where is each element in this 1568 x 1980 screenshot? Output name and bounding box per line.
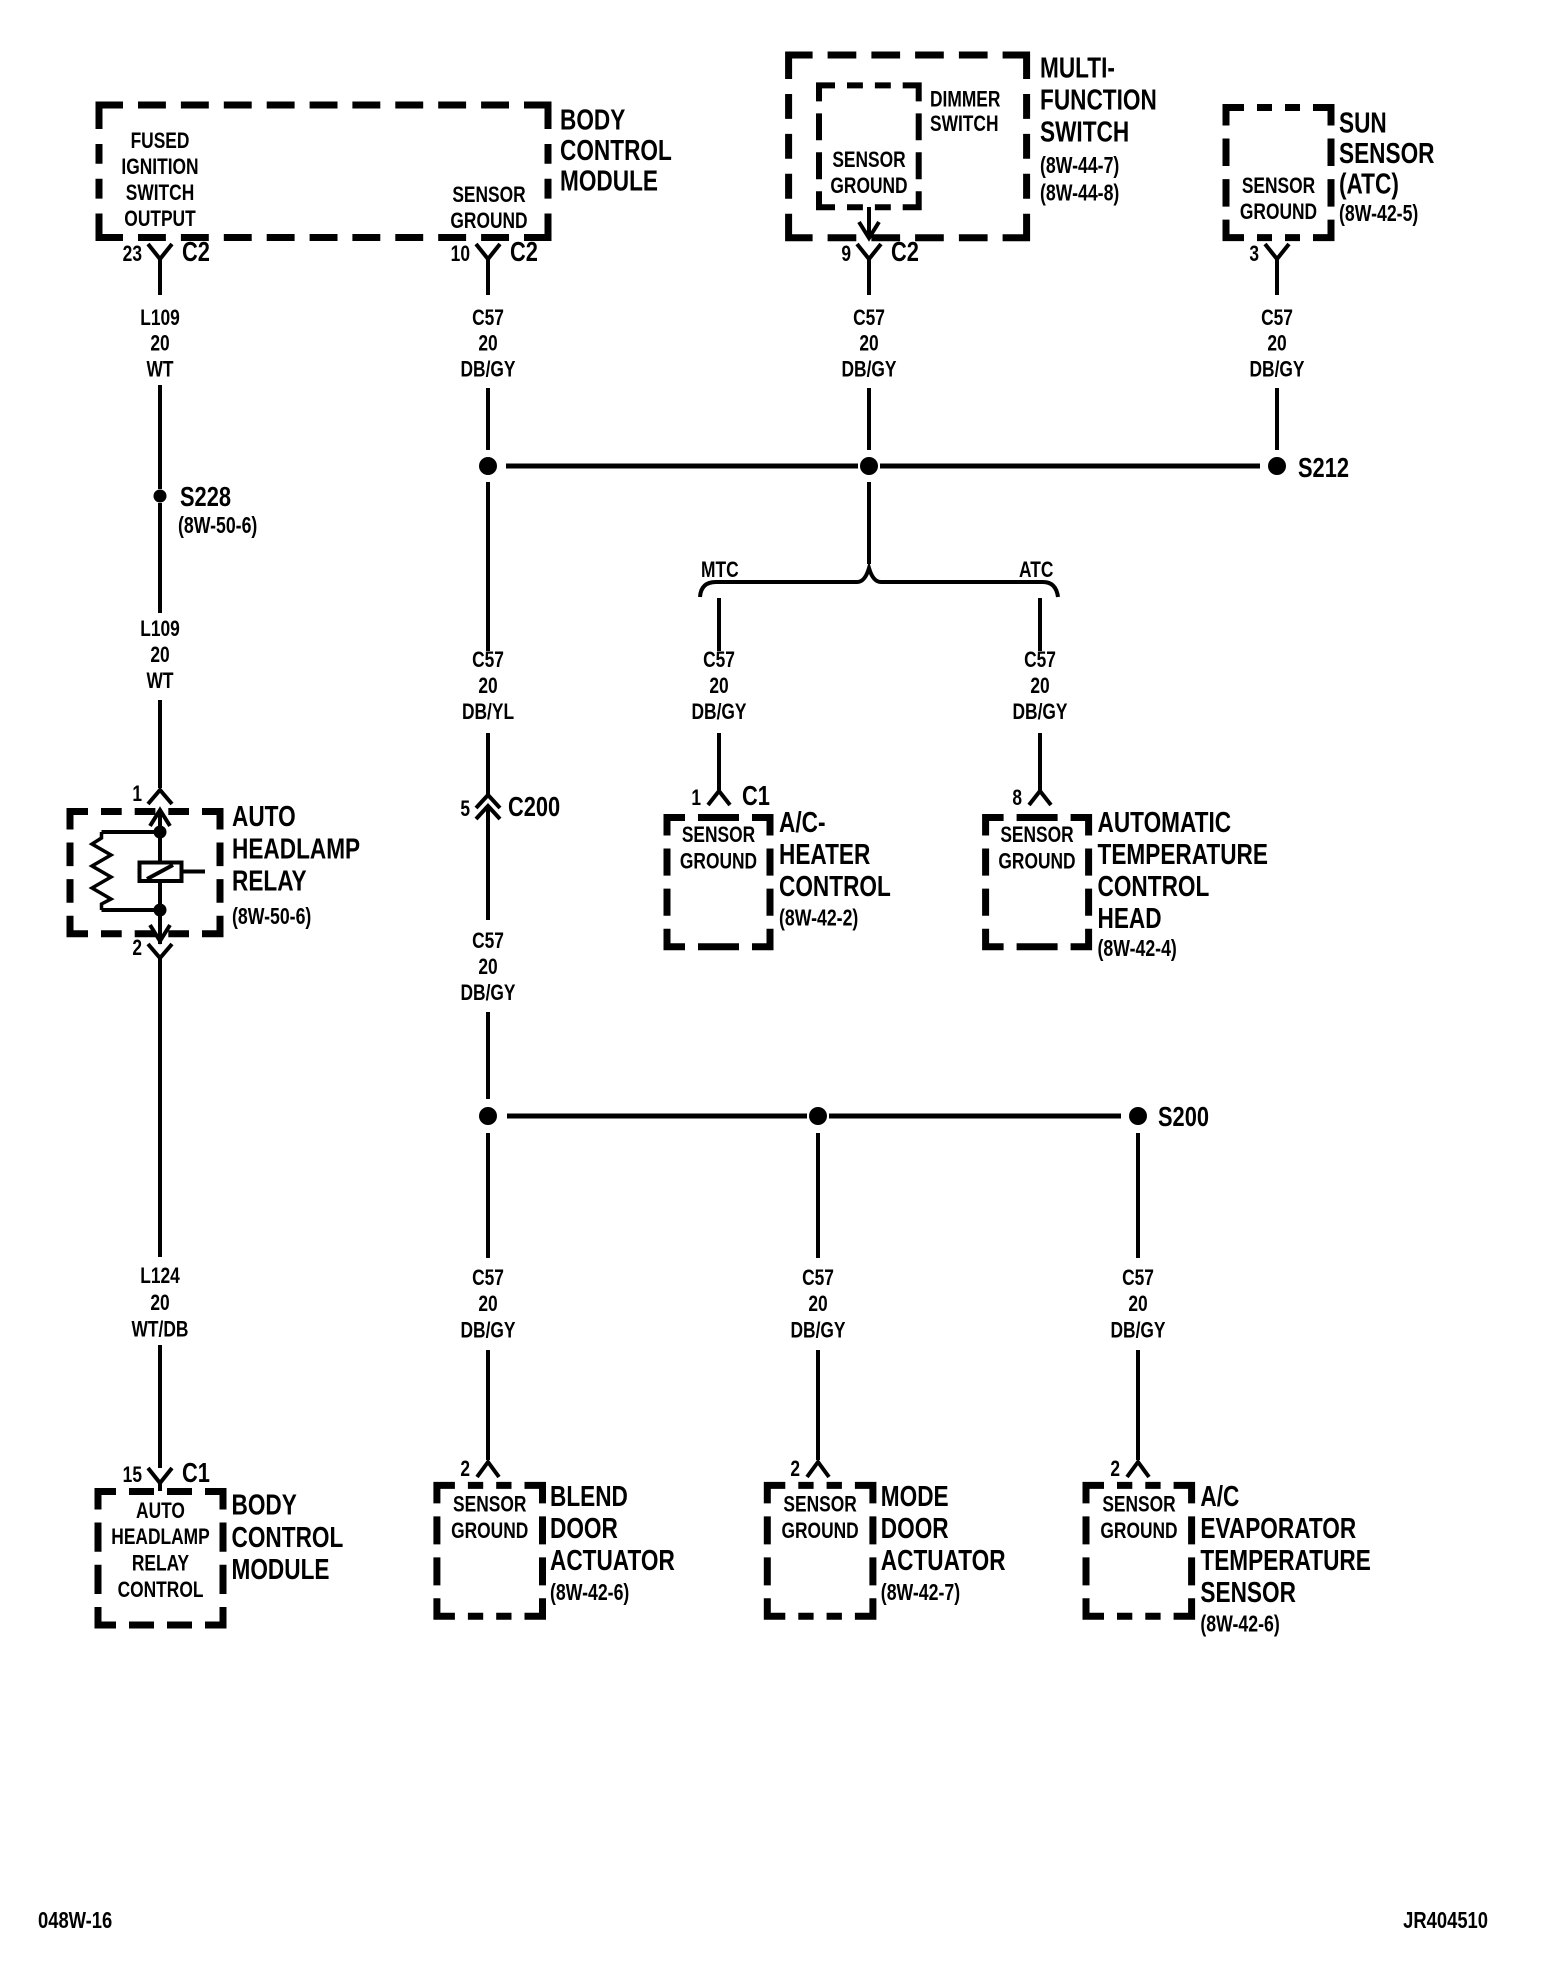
svg-text:C2: C2 bbox=[891, 236, 919, 267]
relay box: AUTO HEADLAMP RELAY bbox=[70, 812, 220, 934]
svg-text:SENSOR: SENSOR bbox=[832, 148, 905, 172]
junction S212 (right dot) bbox=[1268, 457, 1286, 475]
junction S200 (middle dot) bbox=[809, 1107, 827, 1125]
svg-text:DB/GY: DB/GY bbox=[1110, 1319, 1165, 1343]
svg-text:GROUND: GROUND bbox=[830, 174, 907, 198]
svg-text:WT: WT bbox=[146, 669, 173, 693]
connector C2 pin 10 bbox=[451, 236, 538, 295]
svg-text:MULTI-: MULTI- bbox=[1040, 51, 1115, 84]
svg-text:C1: C1 bbox=[182, 1457, 210, 1488]
wire col2 to splice S200 bbox=[486, 1012, 490, 1099]
wire label C57 20 DB/GY (col2 top) bbox=[460, 306, 515, 382]
wire MTC branch lower bbox=[717, 733, 721, 790]
component box: SUN SENSOR (ATC) bbox=[1226, 108, 1331, 238]
pin label: SENSOR GROUND (dimmer switch) bbox=[830, 148, 907, 198]
svg-text:DOOR: DOOR bbox=[881, 1511, 949, 1544]
label: BODY CONTROL MODULE (top) bbox=[560, 103, 672, 197]
wire mid column below S200 bbox=[816, 1133, 820, 1258]
svg-text:DB/GY: DB/GY bbox=[1012, 700, 1067, 724]
label: BODY CONTROL MODULE (bottom) bbox=[232, 1488, 344, 1586]
svg-text:SENSOR: SENSOR bbox=[1242, 174, 1315, 198]
svg-text:SUN: SUN bbox=[1339, 106, 1387, 139]
svg-text:C2: C2 bbox=[510, 236, 538, 267]
male connector arrow into relay bbox=[150, 810, 170, 826]
wire into blend door actuator bbox=[486, 1350, 490, 1460]
resistor (relay suppression) bbox=[92, 832, 160, 910]
pin label: AUTO HEADLAMP RELAY CONTROL bbox=[111, 1499, 209, 1602]
wire into relay pin 1 bbox=[158, 700, 162, 788]
svg-text:2: 2 bbox=[790, 1457, 800, 1481]
svg-text:HEADLAMP: HEADLAMP bbox=[232, 832, 360, 865]
svg-text:WT/DB: WT/DB bbox=[132, 1318, 189, 1342]
svg-text:20: 20 bbox=[478, 1292, 497, 1316]
svg-text:9: 9 bbox=[841, 242, 851, 266]
svg-text:SENSOR: SENSOR bbox=[1200, 1575, 1296, 1608]
svg-text:C57: C57 bbox=[472, 648, 504, 672]
wire label C57 20 DB/GY (col3 top) bbox=[841, 306, 896, 382]
label: ATC bbox=[1019, 558, 1053, 582]
svg-text:(8W-44-8): (8W-44-8) bbox=[1040, 180, 1119, 206]
wire L109 to splice S228 bbox=[158, 385, 162, 489]
svg-text:3: 3 bbox=[1249, 242, 1259, 266]
footer: drawing id JR404510 bbox=[1403, 1908, 1488, 1933]
svg-text:(8W-42-6): (8W-42-6) bbox=[550, 1580, 629, 1606]
svg-text:DB/GY: DB/GY bbox=[1249, 358, 1304, 382]
wire label C57 20 DB/GY (ATC) bbox=[1012, 648, 1067, 724]
svg-text:DB/GY: DB/GY bbox=[460, 358, 515, 382]
wire below C200 bbox=[486, 806, 490, 920]
svg-text:L124: L124 bbox=[140, 1264, 180, 1288]
svg-text:C57: C57 bbox=[802, 1266, 834, 1290]
svg-text:C57: C57 bbox=[853, 306, 885, 330]
label: MODE DOOR ACTUATOR (8W-42-7) bbox=[881, 1479, 1006, 1605]
svg-text:SENSOR: SENSOR bbox=[1102, 1493, 1175, 1517]
svg-text:GROUND: GROUND bbox=[680, 850, 757, 874]
connector pin 8 (ATC head) bbox=[1012, 786, 1051, 810]
svg-text:20: 20 bbox=[859, 332, 878, 356]
connector pin 2 (a/c evaporator temperature sensor) bbox=[1110, 1457, 1149, 1481]
svg-text:S228: S228 bbox=[180, 481, 231, 512]
wire into C200 bbox=[486, 733, 490, 796]
connector C2 pin 9 bbox=[841, 236, 919, 295]
connector C1 pin 1 (A/C-heater control) bbox=[691, 780, 770, 811]
svg-text:(8W-42-6): (8W-42-6) bbox=[1200, 1611, 1279, 1637]
svg-text:GROUND: GROUND bbox=[998, 850, 1075, 874]
junction S200 (right dot) bbox=[1129, 1107, 1147, 1125]
wire + arrow (dimmer switch internal) bbox=[859, 207, 879, 238]
svg-text:15: 15 bbox=[123, 1463, 142, 1487]
component box: A/C-HEATER CONTROL bbox=[667, 818, 770, 947]
svg-text:S200: S200 bbox=[1158, 1101, 1209, 1132]
svg-text:C57: C57 bbox=[472, 929, 504, 953]
svg-text:(8W-42-4): (8W-42-4) bbox=[1098, 936, 1177, 962]
svg-text:OUTPUT: OUTPUT bbox=[124, 207, 195, 231]
connector pin 2 (blend door actuator) bbox=[460, 1457, 499, 1481]
svg-text:(8W-42-5): (8W-42-5) bbox=[1339, 201, 1418, 227]
svg-text:A/C: A/C bbox=[1200, 1479, 1239, 1512]
svg-text:DB/YL: DB/YL bbox=[462, 700, 514, 724]
label: MULTI-FUNCTION SWITCH (8W-44-7) (8W-44-8) bbox=[1040, 51, 1157, 206]
wire label C57 20 DB/YL bbox=[462, 648, 514, 724]
svg-text:HEATER: HEATER bbox=[779, 837, 870, 870]
svg-text:(8W-44-7): (8W-44-7) bbox=[1040, 153, 1119, 179]
svg-text:BODY: BODY bbox=[232, 1488, 297, 1521]
svg-text:SENSOR: SENSOR bbox=[1339, 136, 1435, 169]
junction S212 (middle dot) bbox=[860, 457, 878, 475]
svg-text:SENSOR: SENSOR bbox=[453, 1493, 526, 1517]
wire: splice S212 trunk bbox=[506, 464, 1260, 469]
svg-text:L109: L109 bbox=[140, 617, 180, 641]
module box: BODY CONTROL MODULE (bottom) bbox=[98, 1492, 223, 1626]
wire right column below S200 bbox=[1136, 1133, 1140, 1258]
junction S212 (left dot) bbox=[479, 457, 497, 475]
svg-text:C57: C57 bbox=[1122, 1266, 1154, 1290]
pin label: SENSOR GROUND (blend door actuator) bbox=[451, 1493, 528, 1544]
wire label L124 20 WT/DB bbox=[132, 1264, 189, 1342]
component box: A/C EVAPORATOR TEMPERATURE SENSOR bbox=[1086, 1485, 1192, 1616]
connector pin 2 (auto headlamp relay) bbox=[132, 936, 172, 975]
svg-text:(8W-42-2): (8W-42-2) bbox=[779, 905, 858, 931]
svg-text:RELAY: RELAY bbox=[232, 864, 307, 897]
svg-text:20: 20 bbox=[150, 1291, 169, 1315]
wire label L109 20 WT (upper) bbox=[140, 306, 180, 382]
wire col3 to splice S212 bbox=[867, 388, 871, 450]
wire col2 below S212 bbox=[486, 482, 490, 651]
wire into mode door actuator bbox=[816, 1350, 820, 1460]
svg-text:2: 2 bbox=[460, 1457, 470, 1481]
in-line connector C200 pin 5 bbox=[460, 791, 560, 822]
label: DIMMER SWITCH bbox=[930, 88, 1000, 137]
svg-text:GROUND: GROUND bbox=[451, 1519, 528, 1543]
svg-text:GROUND: GROUND bbox=[1100, 1519, 1177, 1543]
svg-text:CONTROL: CONTROL bbox=[118, 1578, 204, 1602]
svg-text:DB/GY: DB/GY bbox=[790, 1319, 845, 1343]
pin label: SENSOR GROUND (ATC head) bbox=[998, 823, 1075, 874]
svg-text:C57: C57 bbox=[1024, 648, 1056, 672]
svg-text:C1: C1 bbox=[742, 780, 770, 811]
svg-text:FUSED: FUSED bbox=[131, 129, 190, 153]
wire label L109 20 WT (lower) bbox=[140, 617, 180, 693]
wire: splice S200 trunk bbox=[507, 1114, 1121, 1119]
connector C2 pin 23 bbox=[123, 236, 210, 295]
label: MTC bbox=[701, 558, 739, 582]
svg-text:SWITCH: SWITCH bbox=[930, 112, 999, 136]
svg-text:2: 2 bbox=[132, 936, 142, 960]
wire label C57 20 DB/GY (col2 mid) bbox=[460, 929, 515, 1005]
svg-text:C57: C57 bbox=[472, 1266, 504, 1290]
svg-text:TEMPERATURE: TEMPERATURE bbox=[1200, 1543, 1370, 1576]
component box: MODE DOOR ACTUATOR bbox=[767, 1485, 873, 1616]
svg-text:SENSOR: SENSOR bbox=[682, 823, 755, 847]
switch box: DIMMER SWITCH (inner) bbox=[819, 85, 919, 207]
label: A/C EVAPORATOR TEMPERATURE SENSOR (8W-42-6) bbox=[1200, 1479, 1370, 1637]
wire ATC branch lower bbox=[1038, 733, 1042, 790]
svg-text:C200: C200 bbox=[508, 791, 560, 822]
svg-text:SENSOR: SENSOR bbox=[452, 183, 525, 207]
svg-text:DB/GY: DB/GY bbox=[460, 1319, 515, 1343]
svg-text:1: 1 bbox=[132, 782, 142, 806]
svg-text:MODULE: MODULE bbox=[560, 164, 658, 197]
svg-text:AUTO: AUTO bbox=[136, 1499, 185, 1523]
connector pin 2 (mode door actuator) bbox=[790, 1457, 829, 1481]
pin label: SENSOR GROUND (A/C-heater control) bbox=[680, 823, 757, 874]
wire label C57 20 DB/GY (col4 top) bbox=[1249, 306, 1304, 382]
svg-text:GROUND: GROUND bbox=[781, 1519, 858, 1543]
wire L124 long segment bbox=[158, 975, 162, 1257]
pin label: SENSOR GROUND (a/c evaporator temperature sensor) bbox=[1100, 1493, 1177, 1544]
svg-text:SWITCH: SWITCH bbox=[1040, 115, 1129, 148]
svg-text:8: 8 bbox=[1012, 786, 1022, 810]
svg-text:MODULE: MODULE bbox=[232, 1552, 330, 1585]
pin label: SENSOR GROUND (BCM pin 10) bbox=[450, 183, 527, 233]
svg-text:FUNCTION: FUNCTION bbox=[1040, 83, 1157, 116]
svg-text:C57: C57 bbox=[472, 306, 504, 330]
connector pin 1 (auto headlamp relay) bbox=[132, 782, 172, 806]
svg-text:ACTUATOR: ACTUATOR bbox=[881, 1543, 1006, 1576]
svg-text:DOOR: DOOR bbox=[550, 1511, 618, 1544]
pin label: SENSOR GROUND (mode door actuator) bbox=[781, 1493, 858, 1544]
svg-text:20: 20 bbox=[478, 674, 497, 698]
wire MTC branch upper bbox=[717, 598, 721, 651]
svg-text:CONTROL: CONTROL bbox=[232, 1520, 344, 1553]
svg-text:DIMMER: DIMMER bbox=[930, 88, 1000, 112]
wire col4 to splice S212 bbox=[1275, 388, 1279, 450]
svg-text:DB/GY: DB/GY bbox=[841, 358, 896, 382]
svg-text:5: 5 bbox=[460, 797, 470, 821]
wire ATC branch upper bbox=[1038, 598, 1042, 651]
svg-text:DB/GY: DB/GY bbox=[460, 981, 515, 1005]
svg-text:ACTUATOR: ACTUATOR bbox=[550, 1543, 675, 1576]
svg-text:20: 20 bbox=[808, 1292, 827, 1316]
label: AUTO HEADLAMP RELAY (8W-50-6) bbox=[232, 799, 360, 929]
svg-text:WT: WT bbox=[146, 358, 173, 382]
svg-text:HEAD: HEAD bbox=[1098, 901, 1162, 934]
footer: sheet number 048W-16 bbox=[38, 1908, 112, 1933]
wire col2 to splice S212 bbox=[486, 388, 490, 450]
label: S212 bbox=[1298, 452, 1349, 483]
label: SUN SENSOR (ATC) (8W-42-5) bbox=[1339, 106, 1435, 227]
svg-text:S212: S212 bbox=[1298, 452, 1349, 483]
svg-text:CONTROL: CONTROL bbox=[1098, 869, 1210, 902]
label: AUTOMATIC TEMPERATURE CONTROL HEAD (8W-42-4) bbox=[1098, 805, 1268, 961]
svg-text:SWITCH: SWITCH bbox=[126, 181, 195, 205]
svg-text:(ATC): (ATC) bbox=[1339, 167, 1399, 200]
svg-text:(8W-42-7): (8W-42-7) bbox=[881, 1580, 960, 1606]
svg-text:GROUND: GROUND bbox=[450, 209, 527, 233]
svg-text:ATC: ATC bbox=[1019, 558, 1053, 582]
svg-text:20: 20 bbox=[1267, 332, 1286, 356]
svg-text:AUTO: AUTO bbox=[232, 799, 296, 832]
svg-text:20: 20 bbox=[150, 643, 169, 667]
svg-text:BODY: BODY bbox=[560, 103, 625, 136]
svg-text:AUTOMATIC: AUTOMATIC bbox=[1098, 805, 1232, 838]
svg-text:20: 20 bbox=[150, 332, 169, 356]
component box: AUTOMATIC TEMPERATURE CONTROL HEAD bbox=[986, 818, 1089, 947]
module box: BODY CONTROL MODULE (top) bbox=[99, 105, 548, 238]
wire L109 lower segment bbox=[158, 503, 162, 613]
svg-text:(8W-50-6): (8W-50-6) bbox=[232, 904, 311, 930]
svg-text:C2: C2 bbox=[182, 236, 210, 267]
svg-text:RELAY: RELAY bbox=[132, 1552, 189, 1576]
splice S228 bbox=[154, 481, 258, 538]
component box: BLEND DOOR ACTUATOR bbox=[437, 1485, 543, 1616]
connector pin 3 (sun sensor) bbox=[1249, 242, 1289, 295]
svg-text:CONTROL: CONTROL bbox=[560, 133, 672, 166]
svg-text:20: 20 bbox=[1128, 1292, 1147, 1316]
svg-text:BLEND: BLEND bbox=[550, 1479, 628, 1512]
svg-text:JR404510: JR404510 bbox=[1403, 1908, 1488, 1933]
label: BLEND DOOR ACTUATOR (8W-42-6) bbox=[550, 1479, 675, 1605]
module box: MULTI-FUNCTION SWITCH (outer) bbox=[789, 55, 1027, 238]
wire label C57 20 DB/GY (MTC) bbox=[691, 648, 746, 724]
svg-text:DB/GY: DB/GY bbox=[691, 700, 746, 724]
male connector arrow out of relay bbox=[150, 925, 170, 941]
svg-text:TEMPERATURE: TEMPERATURE bbox=[1098, 837, 1268, 870]
label: S200 bbox=[1158, 1101, 1209, 1132]
relay coil K1 bbox=[140, 863, 206, 882]
svg-text:A/C-: A/C- bbox=[779, 805, 825, 838]
svg-text:1: 1 bbox=[691, 786, 701, 810]
wire label C57 20 DB/GY (evap) bbox=[1110, 1266, 1165, 1343]
wire into BCM pin 15 bbox=[158, 1345, 162, 1468]
svg-text:SENSOR: SENSOR bbox=[783, 1493, 856, 1517]
connector C1 pin 15 bbox=[123, 1457, 210, 1491]
svg-text:23: 23 bbox=[123, 242, 142, 266]
svg-text:C57: C57 bbox=[1261, 306, 1293, 330]
svg-text:MTC: MTC bbox=[701, 558, 739, 582]
svg-text:20: 20 bbox=[478, 955, 497, 979]
svg-text:(8W-50-6): (8W-50-6) bbox=[178, 513, 257, 539]
svg-text:IGNITION: IGNITION bbox=[121, 155, 198, 179]
wire label C57 20 DB/GY (blend) bbox=[460, 1266, 515, 1343]
wire inside relay (coil feed) bbox=[158, 812, 162, 864]
junction node (relay top) bbox=[154, 826, 167, 839]
svg-text:L109: L109 bbox=[140, 306, 180, 330]
svg-text:GROUND: GROUND bbox=[1240, 200, 1317, 224]
svg-text:MODE: MODE bbox=[881, 1479, 949, 1512]
wire inside relay (coil to pin 2) bbox=[158, 881, 162, 944]
pin label: FUSED IGNITION SWITCH OUTPUT bbox=[121, 129, 198, 231]
svg-text:10: 10 bbox=[451, 242, 470, 266]
label: A/C-HEATER CONTROL (8W-42-2) bbox=[779, 805, 891, 931]
wire label C57 20 DB/GY (mode) bbox=[790, 1266, 845, 1343]
pin label: SENSOR GROUND (sun sensor) bbox=[1240, 174, 1317, 224]
junction S200 (left dot) bbox=[479, 1107, 497, 1125]
svg-text:CONTROL: CONTROL bbox=[779, 869, 891, 902]
wire col2 below S200 bbox=[486, 1133, 490, 1258]
svg-text:SENSOR: SENSOR bbox=[1000, 823, 1073, 847]
svg-text:20: 20 bbox=[1030, 674, 1049, 698]
svg-text:EVAPORATOR: EVAPORATOR bbox=[1200, 1511, 1356, 1544]
svg-text:HEADLAMP: HEADLAMP bbox=[111, 1525, 209, 1549]
wire col3 below S212 bbox=[867, 482, 871, 564]
svg-text:20: 20 bbox=[478, 332, 497, 356]
svg-text:C57: C57 bbox=[703, 648, 735, 672]
brace splitter MTC/ATC bbox=[700, 568, 1058, 597]
svg-text:20: 20 bbox=[709, 674, 728, 698]
junction node (relay bottom) bbox=[154, 904, 167, 917]
wire into a/c evaporator temperature sensor bbox=[1136, 1350, 1140, 1460]
svg-text:048W-16: 048W-16 bbox=[38, 1908, 112, 1933]
svg-text:2: 2 bbox=[1110, 1457, 1120, 1481]
